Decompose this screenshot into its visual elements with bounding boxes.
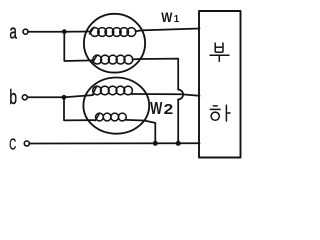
T1 secondary winding <box>93 55 133 64</box>
svg-text:1: 1 <box>174 14 180 25</box>
wire junction A down to T1 secondary <box>64 32 93 61</box>
load label Hangul BU <box>210 43 230 62</box>
label W2 <box>150 99 173 118</box>
label W1 <box>161 9 180 25</box>
transformer T1 circle <box>84 14 145 73</box>
load label Hangul HA <box>210 105 231 122</box>
wire a to junction <box>28 31 64 33</box>
svg-text:W: W <box>161 9 173 25</box>
svg-text:b: b <box>9 86 17 109</box>
wire c to load (bottom) <box>29 142 199 144</box>
node bottom junction 1 dot <box>153 141 158 146</box>
load box <box>199 11 241 158</box>
wire hop over middle wire <box>178 90 183 100</box>
wire junction B down to T2 secondary <box>64 97 96 120</box>
terminal c <box>24 141 29 146</box>
terminal b <box>22 95 27 100</box>
svg-text:2: 2 <box>164 101 174 118</box>
wire hop vertical continues to bottom junction <box>177 99 179 143</box>
T1 primary winding <box>90 27 136 36</box>
transformer T2 circle <box>83 78 149 134</box>
wire junction B to T2 primary <box>64 95 93 97</box>
node junction A dot <box>62 29 67 34</box>
svg-text:C: C <box>9 135 16 153</box>
wire b to junction <box>27 96 64 98</box>
node junction B dot <box>62 95 67 100</box>
T2 secondary winding <box>95 113 126 121</box>
svg-text:W: W <box>150 99 163 118</box>
wire W1: T1 primary to load <box>136 29 200 32</box>
wire T2 primary to load (middle) <box>132 94 200 96</box>
terminal a <box>23 29 28 34</box>
T2 primary winding <box>92 86 132 95</box>
wire junction A to T1 primary <box>64 31 91 33</box>
wire T1 secondary to corner, vertical with hop, to bottom node <box>132 59 178 90</box>
node bottom junction 2 dot <box>176 141 181 146</box>
wire T2 secondary to corner down to bottom node <box>126 120 156 143</box>
svg-text:a: a <box>9 21 17 43</box>
